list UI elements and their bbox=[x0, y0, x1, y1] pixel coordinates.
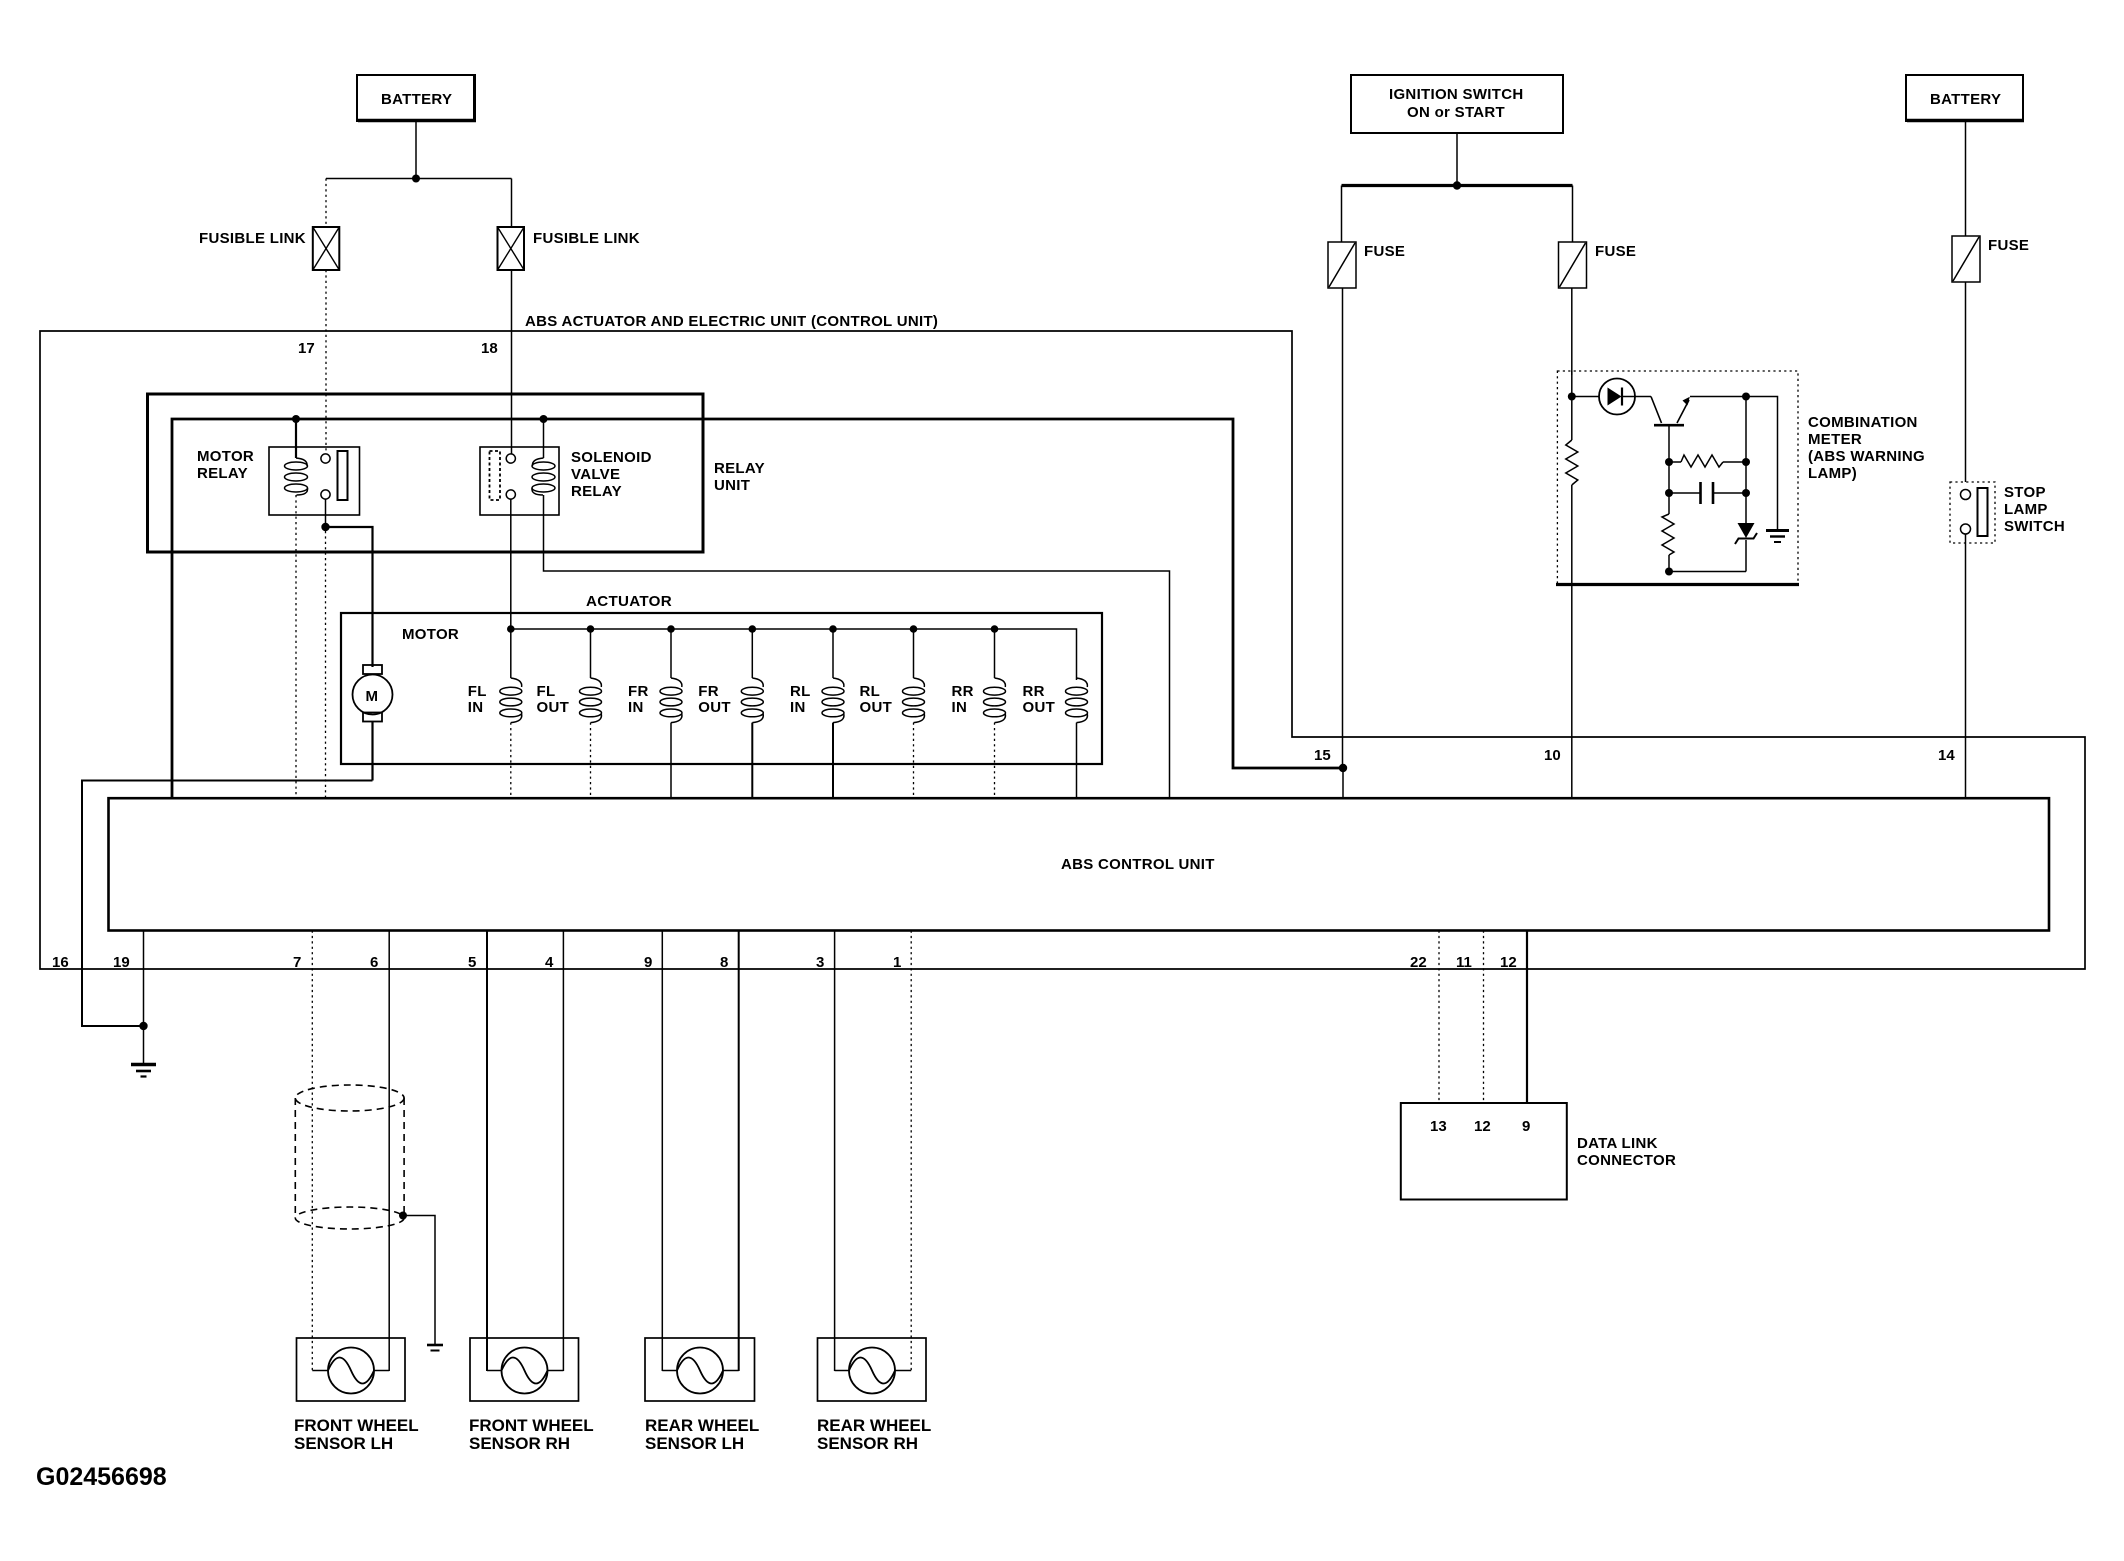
svg-text:REAR WHEEL: REAR WHEEL bbox=[817, 1416, 931, 1435]
svg-text:19: 19 bbox=[113, 954, 130, 971]
valve coil RL IN bbox=[790, 629, 844, 799]
svg-text:CONNECTOR: CONNECTOR bbox=[1577, 1152, 1676, 1169]
pin 11 label bbox=[1456, 954, 1472, 971]
ignition switch box bbox=[1351, 75, 1563, 133]
svg-text:RELAY: RELAY bbox=[714, 460, 765, 477]
svg-text:FUSE: FUSE bbox=[1595, 243, 1636, 260]
wire: motor relay coil return (dotted to ABS pin) bbox=[295, 495, 297, 799]
wire fuse F1 to pin 15 junction bbox=[1342, 288, 1344, 768]
svg-text:14: 14 bbox=[1938, 747, 1955, 764]
pin 4 label bbox=[545, 954, 554, 971]
node: bus dot FR OUT bbox=[749, 625, 757, 633]
caption G02456698 bbox=[36, 1463, 167, 1491]
svg-text:IN: IN bbox=[790, 699, 806, 716]
fusible link FL1 (left) bbox=[199, 227, 339, 270]
svg-text:FUSIBLE LINK: FUSIBLE LINK bbox=[533, 230, 640, 247]
wire battery-left down bbox=[415, 121, 417, 179]
pin 19 label bbox=[113, 954, 130, 971]
node: meter input junction bbox=[1568, 393, 1576, 401]
svg-text:11: 11 bbox=[1456, 954, 1472, 971]
node: collector rail junction bbox=[1742, 393, 1750, 401]
wire collector rail vertical bbox=[1745, 397, 1747, 524]
svg-text:8: 8 bbox=[720, 954, 728, 971]
svg-text:17: 17 bbox=[298, 340, 315, 357]
svg-text:FUSE: FUSE bbox=[1988, 237, 2029, 254]
pin 10 label bbox=[1544, 747, 1561, 764]
wire: thick supply bus from ABS pin up through relay unit to pin 15 junction bbox=[172, 419, 1343, 799]
wire stop lamp switch to ABS pin 14 bbox=[1965, 534, 1967, 799]
svg-text:9: 9 bbox=[1522, 1118, 1530, 1135]
svg-text:12: 12 bbox=[1500, 954, 1517, 971]
pin 3 label bbox=[816, 954, 824, 971]
fuse F1 bbox=[1328, 242, 1405, 288]
svg-text:10: 10 bbox=[1544, 747, 1561, 764]
valve coil FR IN bbox=[628, 629, 682, 799]
fuse F2 bbox=[1559, 242, 1637, 288]
svg-text:FRONT WHEEL: FRONT WHEEL bbox=[294, 1416, 419, 1435]
svg-text:SENSOR LH: SENSOR LH bbox=[294, 1434, 393, 1453]
wire ignition down bbox=[1456, 133, 1458, 186]
ground symbol G1 bbox=[131, 1065, 156, 1077]
wire pin 8 to rear wheel sensor LH bbox=[738, 931, 740, 1372]
svg-text:IN: IN bbox=[468, 699, 484, 716]
rear wheel sensor RH bbox=[817, 1338, 931, 1453]
svg-text:FR: FR bbox=[698, 683, 719, 700]
wire pin 3 to rear wheel sensor RH bbox=[834, 931, 836, 1372]
wire: dotted from junction down to ABS pin bbox=[325, 531, 327, 799]
svg-text:RL: RL bbox=[860, 683, 881, 700]
pin 17 label bbox=[298, 340, 315, 357]
battery (left) bbox=[357, 75, 476, 121]
svg-text:18: 18 bbox=[481, 340, 498, 357]
svg-text:7: 7 bbox=[293, 954, 301, 971]
svg-text:REAR WHEEL: REAR WHEEL bbox=[645, 1416, 759, 1435]
ABS control unit box U1 bbox=[109, 798, 2050, 930]
node: bus to motor relay coil bbox=[292, 415, 300, 423]
svg-text:COMBINATION: COMBINATION bbox=[1808, 414, 1918, 431]
svg-text:FR: FR bbox=[628, 683, 649, 700]
wire pin 4 to front wheel sensor RH bbox=[562, 931, 564, 1372]
svg-text:METER: METER bbox=[1808, 431, 1862, 448]
pin 18 label bbox=[481, 340, 498, 357]
battery (right) bbox=[1906, 75, 2024, 121]
node: bus dot RL OUT bbox=[910, 625, 918, 633]
svg-text:12: 12 bbox=[1474, 1118, 1491, 1135]
svg-text:OUT: OUT bbox=[537, 699, 570, 716]
svg-text:ACTUATOR: ACTUATOR bbox=[586, 593, 672, 610]
svg-text:9: 9 bbox=[644, 954, 652, 971]
svg-text:OUT: OUT bbox=[698, 699, 731, 716]
valve coil RR OUT bbox=[1023, 678, 1088, 799]
solenoid valve relay contact circles bbox=[506, 454, 515, 499]
capacitor C1 bbox=[1669, 482, 1746, 504]
svg-text:6: 6 bbox=[370, 954, 378, 971]
svg-text:MOTOR: MOTOR bbox=[402, 626, 459, 643]
motor relay contact blade bbox=[338, 451, 348, 500]
wire shield to ground bbox=[403, 1216, 435, 1345]
actuator bus wire bbox=[511, 629, 1077, 680]
pin 16 label bbox=[52, 954, 69, 971]
pin 22 label bbox=[1410, 954, 1427, 971]
wire battery-right to fuse bbox=[1965, 121, 1967, 236]
svg-text:SENSOR LH: SENSOR LH bbox=[645, 1434, 744, 1453]
wire pin 22 to data link connector (dotted) bbox=[1438, 931, 1440, 1104]
svg-text:OUT: OUT bbox=[860, 699, 893, 716]
front wheel sensor LH bbox=[294, 1338, 419, 1453]
ground symbol (shield) bbox=[427, 1345, 443, 1351]
wire junction to LED bbox=[1572, 396, 1599, 398]
svg-text:SENSOR RH: SENSOR RH bbox=[469, 1434, 570, 1453]
svg-text:MOTOR: MOTOR bbox=[197, 448, 254, 465]
resistor R1 (meter left) bbox=[1566, 397, 1578, 585]
svg-text:DATA LINK: DATA LINK bbox=[1577, 1135, 1658, 1152]
pin 15 label bbox=[1314, 747, 1331, 764]
pin 1 label bbox=[893, 954, 901, 971]
solenoid valve relay contact blade (dashed) bbox=[490, 451, 501, 500]
svg-text:SWITCH: SWITCH bbox=[2004, 518, 2065, 535]
svg-text:RR: RR bbox=[952, 683, 974, 700]
svg-text:ABS ACTUATOR AND ELECTRIC UNIT: ABS ACTUATOR AND ELECTRIC UNIT (CONTROL … bbox=[525, 313, 938, 330]
wire to left fusible link (dotted) bbox=[325, 179, 327, 228]
ABS actuator and electric unit (control unit) outer boundary bbox=[40, 331, 2085, 969]
svg-text:IGNITION SWITCH: IGNITION SWITCH bbox=[1389, 86, 1524, 103]
pin 9 label bbox=[644, 954, 652, 971]
actuator box bbox=[341, 593, 1102, 764]
svg-text:VALVE: VALVE bbox=[571, 466, 620, 483]
wire to fuse F2 bbox=[1572, 186, 1574, 243]
node: ground junction bbox=[139, 1022, 147, 1030]
wire meter feed bbox=[1571, 371, 1573, 397]
rear wheel sensor LH bbox=[645, 1338, 759, 1453]
wire pin 1 to rear wheel sensor RH (dotted) bbox=[910, 931, 912, 1372]
svg-text:13: 13 bbox=[1430, 1118, 1447, 1135]
wire pin15 junction to ABS bbox=[1342, 768, 1344, 799]
wire pin 6 to front wheel sensor LH bbox=[388, 931, 390, 1372]
wire to internal ground bbox=[1746, 397, 1778, 530]
node: meter bottom junction bbox=[1665, 568, 1673, 576]
zener diode Z1 bbox=[1735, 523, 1757, 572]
wire pin 7 to front wheel sensor LH (dotted) bbox=[311, 931, 313, 1372]
node: bus dot RR IN bbox=[991, 625, 999, 633]
node: bus dot RL IN bbox=[829, 625, 837, 633]
pin 14 label bbox=[1938, 747, 1955, 764]
shield (screened cable) around front LH sensor wires bbox=[295, 1085, 404, 1229]
wire meter bottom bbox=[1669, 571, 1746, 573]
wire: junction to motor (thick) bbox=[326, 527, 373, 667]
valve coil RR IN bbox=[952, 629, 1006, 799]
svg-text:UNIT: UNIT bbox=[714, 477, 750, 494]
wire pin 17 (dotted) from fusible link to motor relay contact bbox=[325, 270, 327, 454]
wire split horizontal bbox=[326, 178, 512, 180]
svg-text:G02456698: G02456698 bbox=[36, 1463, 167, 1491]
wire transistor base down bbox=[1668, 425, 1670, 462]
svg-text:1: 1 bbox=[893, 954, 901, 971]
wire: solenoid relay contact down to actuator bus bbox=[510, 499, 512, 629]
svg-text:4: 4 bbox=[545, 954, 554, 971]
transistor Q1 bbox=[1635, 397, 1746, 426]
wire: bus to motor relay coil (thick) bbox=[295, 419, 297, 458]
fuse F3 bbox=[1952, 236, 2029, 282]
node: capacitor junction left bbox=[1665, 489, 1673, 497]
wire pin 11 to data link connector (dotted) bbox=[1483, 931, 1485, 1104]
wire pin 18 from fusible link to solenoid valve relay contact bbox=[511, 270, 513, 454]
pin 5 label bbox=[468, 954, 476, 971]
resistor R2 (feedback horizontal) bbox=[1669, 455, 1746, 467]
wire pin 12 to data link connector bbox=[1526, 931, 1528, 1104]
wire: motor ground horizontal bbox=[82, 781, 373, 1027]
svg-text:15: 15 bbox=[1314, 747, 1331, 764]
wire meter to ABS pin 10 bbox=[1571, 585, 1573, 800]
svg-text:FRONT WHEEL: FRONT WHEEL bbox=[469, 1416, 594, 1435]
wire: solenoid relay coil return to ABS pin bbox=[544, 495, 1170, 799]
combination meter box (dotted) bbox=[1556, 371, 1925, 585]
data link connector J1 bbox=[1401, 1103, 1676, 1200]
valve coil RL OUT bbox=[860, 629, 925, 799]
node: capacitor junction right bbox=[1742, 489, 1750, 497]
svg-text:ON or START: ON or START bbox=[1407, 104, 1505, 121]
svg-text:STOP: STOP bbox=[2004, 484, 2046, 501]
svg-text:16: 16 bbox=[52, 954, 69, 971]
svg-text:5: 5 bbox=[468, 954, 476, 971]
svg-text:RR: RR bbox=[1023, 683, 1045, 700]
svg-text:(ABS WARNING: (ABS WARNING bbox=[1808, 448, 1925, 465]
resistor R3 (vertical) bbox=[1662, 493, 1674, 572]
motor M1 bbox=[353, 665, 393, 722]
wire: junction to ground bbox=[143, 1026, 145, 1063]
svg-text:3: 3 bbox=[816, 954, 824, 971]
svg-text:IN: IN bbox=[952, 699, 968, 716]
relay unit box bbox=[148, 394, 765, 552]
motor relay K1 bbox=[197, 447, 360, 515]
valve coil FL IN bbox=[468, 629, 522, 799]
svg-text:22: 22 bbox=[1410, 954, 1427, 971]
motor relay coil bbox=[285, 458, 308, 495]
wire fuse F2 to combination meter bbox=[1571, 288, 1573, 375]
svg-text:M: M bbox=[366, 688, 379, 705]
front wheel sensor RH bbox=[469, 1338, 594, 1453]
wire to fuse F1 bbox=[1341, 186, 1343, 243]
warning lamp LED D1 bbox=[1599, 379, 1635, 415]
valve coil FR OUT bbox=[698, 629, 763, 799]
label: ABS ACTUATOR AND ELECTRIC UNIT (CONTROL UNIT) bbox=[525, 313, 938, 330]
svg-text:BATTERY: BATTERY bbox=[1930, 91, 2001, 108]
svg-text:SOLENOID: SOLENOID bbox=[571, 449, 652, 466]
pin 12 label bbox=[1500, 954, 1517, 971]
solenoid valve relay K2 bbox=[480, 447, 652, 515]
svg-text:LAMP: LAMP bbox=[2004, 501, 2048, 518]
node: ignition junction bbox=[1453, 181, 1461, 189]
wire: ABS pin 19 down bbox=[143, 931, 145, 1027]
fusible link FL2 (right) bbox=[498, 227, 640, 270]
pin 8 label bbox=[720, 954, 728, 971]
pin 7 label bbox=[293, 954, 301, 971]
wire pin 5 to front wheel sensor RH bbox=[486, 931, 488, 1372]
stop lamp switch SW1 bbox=[1950, 482, 2065, 543]
wire: motor to ground run (thick) bbox=[371, 722, 373, 781]
node: bus dot FL OUT bbox=[587, 625, 595, 633]
svg-text:RELAY: RELAY bbox=[197, 465, 248, 482]
svg-text:SENSOR RH: SENSOR RH bbox=[817, 1434, 918, 1453]
wire pin 9 to rear wheel sensor LH bbox=[661, 931, 663, 1372]
node: bus dot FL IN bbox=[507, 625, 515, 633]
svg-text:IN: IN bbox=[628, 699, 644, 716]
wire ignition split (thick) bbox=[1342, 184, 1573, 187]
node: bus dot FR IN bbox=[667, 625, 675, 633]
svg-text:ABS CONTROL UNIT: ABS CONTROL UNIT bbox=[1061, 856, 1215, 873]
wire to right fusible link bbox=[511, 179, 513, 228]
node: battery-left junction bbox=[412, 175, 420, 183]
node: shield drain junction bbox=[399, 1212, 407, 1220]
node: motor feed junction bbox=[321, 523, 329, 531]
svg-text:RELAY: RELAY bbox=[571, 483, 622, 500]
svg-text:FL: FL bbox=[537, 683, 556, 700]
wire: bus junction to pin 15 wire bbox=[1339, 764, 1347, 772]
node: base-resistor junction left bbox=[1665, 458, 1673, 466]
svg-text:BATTERY: BATTERY bbox=[381, 91, 452, 108]
valve coil FL OUT bbox=[537, 629, 602, 799]
svg-text:FUSE: FUSE bbox=[1364, 243, 1405, 260]
pin 6 label bbox=[370, 954, 378, 971]
node: resistor junction right bbox=[1742, 458, 1750, 466]
svg-text:FL: FL bbox=[468, 683, 487, 700]
wire left branch down bbox=[1668, 462, 1670, 493]
svg-text:OUT: OUT bbox=[1023, 699, 1056, 716]
wire: motor relay contact to junction bbox=[325, 499, 327, 527]
ground symbol (meter) bbox=[1766, 531, 1789, 543]
node: bus to solenoid valve relay coil bbox=[540, 415, 548, 423]
svg-text:FUSIBLE LINK: FUSIBLE LINK bbox=[199, 230, 306, 247]
svg-text:LAMP): LAMP) bbox=[1808, 465, 1857, 482]
solenoid valve relay coil bbox=[532, 419, 555, 495]
motor relay contact circles bbox=[321, 454, 330, 499]
svg-text:RL: RL bbox=[790, 683, 811, 700]
wire fuse F3 to stop lamp switch bbox=[1965, 282, 1967, 482]
